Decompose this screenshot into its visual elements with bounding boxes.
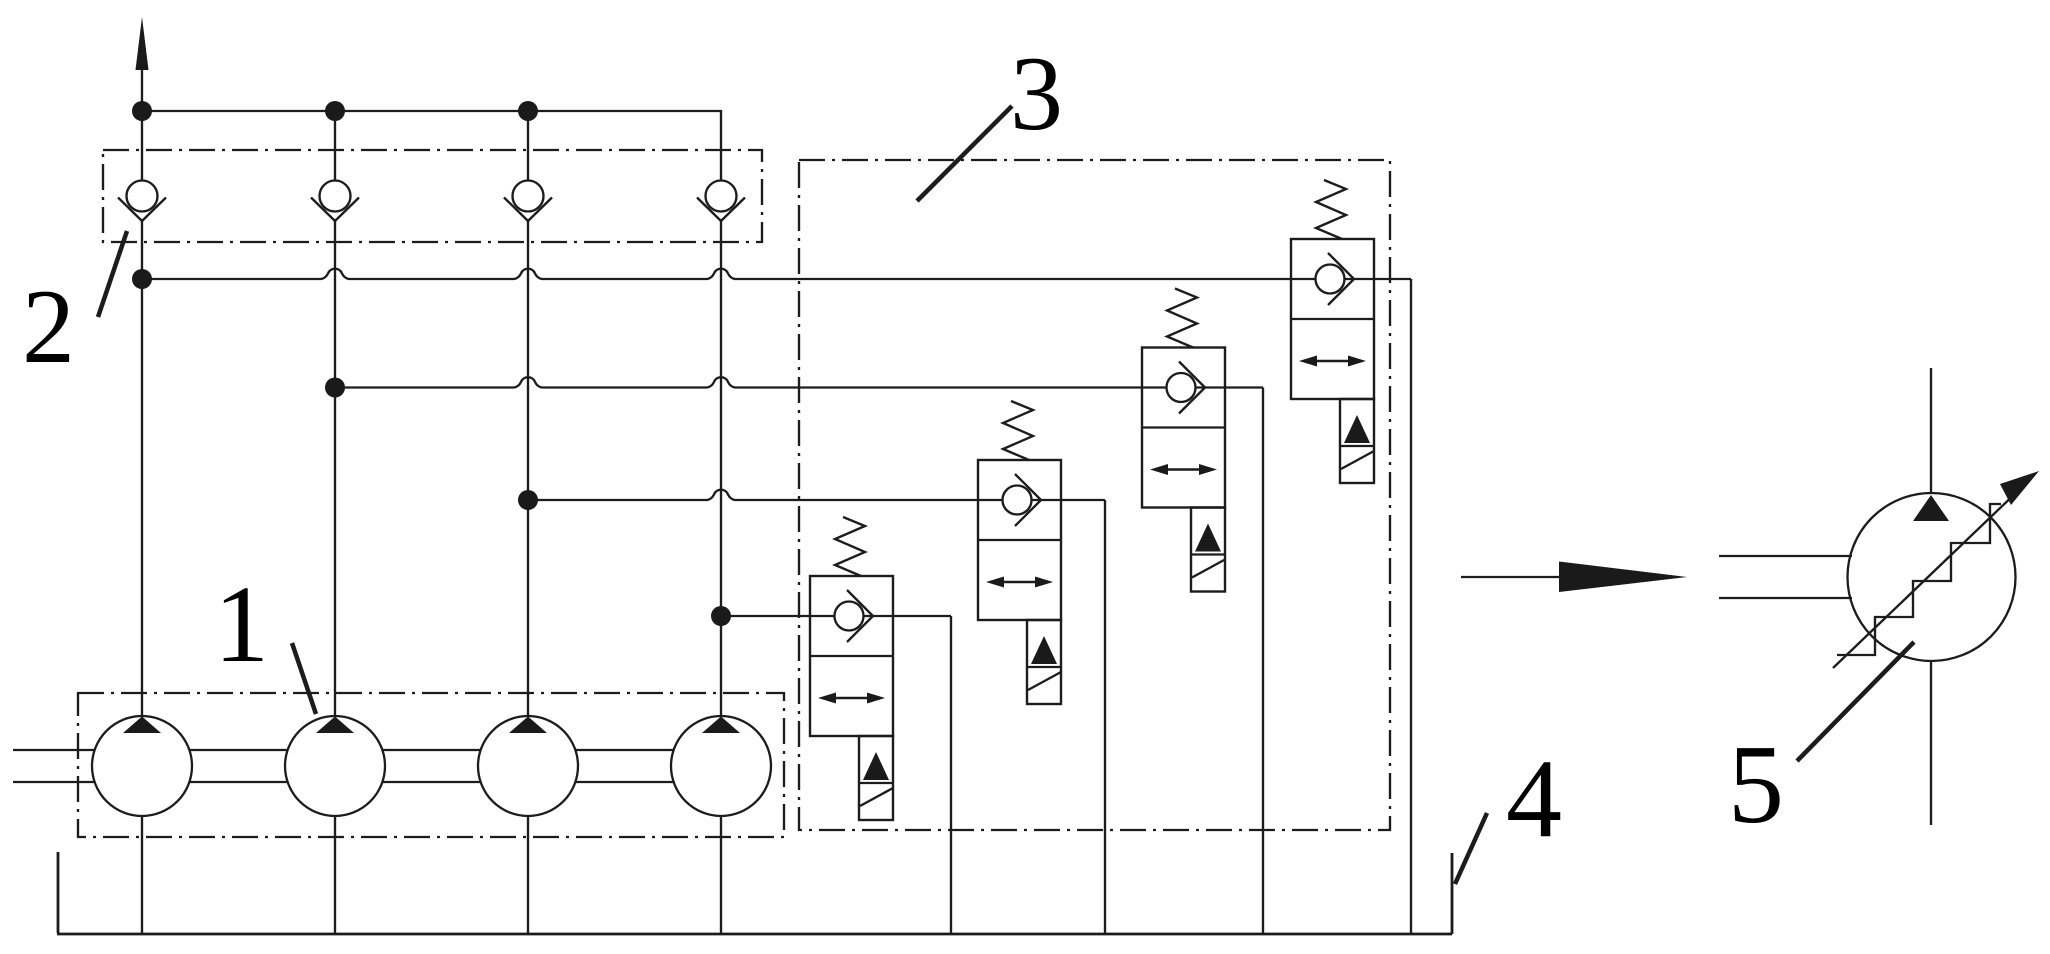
check valve 2c — [504, 181, 552, 222]
valve V3 check position — [1167, 373, 1196, 402]
junction dot bus1-line3 — [518, 101, 538, 121]
valve V3 — [1142, 289, 1225, 592]
valve group box 3 — [799, 160, 1390, 830]
motor 5 — [1719, 368, 2039, 825]
pump 1c — [478, 716, 578, 816]
label 2 — [22, 231, 127, 385]
wire: pump line 4 below check — [720, 219, 722, 716]
valve V1 pilot actuator — [859, 736, 893, 820]
wire: drive shaft input — [13, 750, 95, 782]
junction dot feed2-line3 — [518, 490, 538, 510]
leader line 1 — [292, 643, 316, 714]
motor 5 adjustment arrow diagonal — [1833, 488, 2021, 668]
svg-text:2: 2 — [22, 268, 75, 385]
check valve 2d — [697, 181, 745, 222]
wire: pump line 2 below check — [334, 219, 336, 716]
wire: pump 1a drain down — [141, 816, 143, 934]
label 4 — [1455, 737, 1562, 884]
check valve manifold box 2 — [103, 150, 762, 242]
valve V3 spring — [1167, 289, 1197, 348]
wire: pump line 2 vertical — [334, 111, 336, 181]
junction dot feed3-line2 — [325, 378, 345, 398]
pump 1b — [285, 716, 385, 816]
wire: pump 1b drain down — [334, 816, 336, 934]
valve V2 body — [978, 460, 1061, 620]
wire: feed line to valve V1 — [721, 615, 951, 617]
valve V3 pilot actuator — [1191, 508, 1225, 592]
svg-text:3: 3 — [1010, 35, 1063, 152]
wire: coupling pump1-pump2 — [190, 750, 288, 782]
valve V4 open position arrow — [1313, 360, 1352, 363]
valve V1 open position arrow — [832, 697, 871, 700]
wire: motor inlet from top — [1930, 368, 1932, 494]
leader line 3 — [917, 106, 1012, 201]
wire: pump line 3 vertical — [527, 111, 529, 181]
wire: motor outlet bottom — [1930, 660, 1932, 825]
wire: top bus connecting pump lines, corner into line 4 — [142, 111, 721, 181]
label 5 — [1728, 642, 1914, 847]
motor 5 staircase variable-displacement symbol — [1837, 504, 2001, 655]
valve V1 body — [810, 576, 893, 736]
motor 5 flow triangle — [1913, 495, 1949, 521]
valve V2 spring — [1003, 401, 1033, 460]
valve V2 open position arrow — [1000, 581, 1039, 584]
pump 1d — [671, 716, 771, 816]
valve V4 body — [1291, 239, 1374, 399]
junction dot bus1-line2 — [325, 101, 345, 121]
check valve 2b — [311, 181, 359, 222]
svg-text:4: 4 — [1506, 737, 1562, 861]
valve V2 pilot actuator — [1027, 620, 1061, 704]
svg-text:1: 1 — [214, 563, 269, 685]
valve V1 — [810, 517, 893, 820]
valve V4 check position — [1316, 265, 1345, 294]
valve V4 pilot actuator — [1340, 399, 1374, 483]
wire: bus 2 feed to valve V4 with crossover hops — [142, 269, 1411, 279]
svg-text:5: 5 — [1728, 723, 1784, 847]
valve V3 open position arrow — [1164, 468, 1203, 471]
wire: motor left port lower — [1719, 597, 1852, 599]
valve V1 spring — [835, 517, 865, 576]
valve V1 check position — [835, 602, 864, 631]
leader line 4 — [1455, 813, 1487, 884]
wire: feed line to valve V3 with hops — [335, 377, 1263, 387]
valve V4 — [1291, 180, 1374, 483]
valve V2 — [978, 401, 1061, 704]
motor 5 circle — [1848, 493, 2016, 661]
wire: pump 1d drain down — [720, 816, 722, 934]
wire: collector line 4 bottom bus — [57, 852, 1452, 934]
junction dot feed1-line4 — [711, 606, 731, 626]
junction dot bus1-line1 — [132, 101, 152, 121]
arrow: system outlet at top of line 1 — [136, 17, 149, 70]
wire: valve V2 output down — [1104, 500, 1106, 934]
wire: valve V4 output down — [1410, 279, 1412, 934]
label 1 — [214, 563, 316, 714]
wire: coupling pump3-pump4 — [576, 750, 674, 782]
wire: pump line 3 below check — [527, 219, 529, 716]
wire: pump line 1 vertical — [141, 64, 143, 716]
junction dot bus2-line1 — [132, 269, 152, 289]
pump 1a — [92, 716, 192, 816]
valve V2 check position — [1003, 486, 1032, 515]
wire: coupling pump2-pump3 — [383, 750, 481, 782]
label 3 — [917, 35, 1063, 201]
wire: pump 1c drain down — [527, 816, 529, 934]
leader line 5 — [1797, 642, 1914, 761]
leader line 2 — [98, 231, 127, 317]
arrow: flow to motor — [1461, 562, 1687, 593]
check valve 2a — [118, 181, 166, 222]
wire: valve V1 output down — [950, 616, 952, 934]
valve V3 body — [1142, 348, 1225, 508]
valve V4 spring — [1316, 180, 1346, 239]
wire: feed line to valve V2 with hop — [528, 490, 1105, 500]
wire: valve V3 output down — [1262, 388, 1264, 935]
wire: motor left port upper — [1719, 555, 1852, 557]
pump group box 1 — [78, 693, 784, 837]
